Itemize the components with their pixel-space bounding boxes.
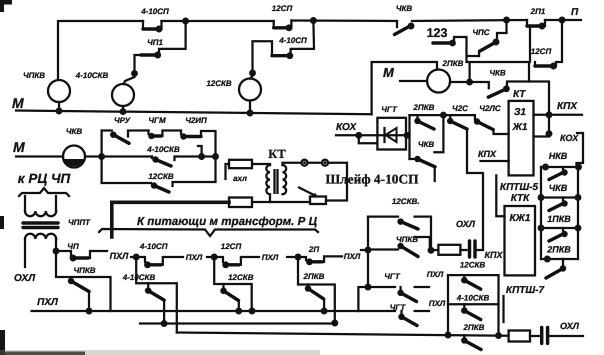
block Z1 Zh1 (KPTSh-5 KTK) (509, 101, 534, 175)
svg-text:ПХЛ: ПХЛ (37, 297, 59, 308)
wire top bus P from 4-10SP contact to P terminal (58, 20, 581, 80)
rail of ChGT block (367, 217, 369, 287)
contact ChRU (open) (110, 116, 148, 143)
block KZh1 (505, 206, 536, 275)
svg-text:к РЦ ЧП: к РЦ ЧП (18, 171, 71, 186)
svg-text:ЧКВ: ЧКВ (489, 69, 506, 78)
wire staircase 123-stub to ChPS and to 12SP bypass (454, 26, 530, 62)
contact ChKV (top right, open) (395, 4, 415, 35)
contact ChPKV (open) cell 1 (56, 251, 111, 314)
svg-text:ЧКВ: ЧКВ (418, 140, 435, 149)
contact 4-10SP (closed) to PHL (136, 253, 203, 268)
contact Ch2S (open) to KZh1 box KPH input (447, 104, 483, 250)
variable resistor of shleif with arrow (252, 188, 326, 205)
contact ChKV (third, vertical open) (410, 115, 444, 181)
svg-text:ЧГТ: ЧГТ (381, 105, 398, 114)
contact ChP (closed) to PHL (56, 242, 107, 261)
relay coil 12SKV (206, 79, 261, 114)
svg-text:ЧКВ: ЧКВ (66, 127, 83, 136)
svg-text:4-10СП: 4-10СП (139, 242, 168, 251)
svg-text:ЧПКВ: ЧПКВ (73, 266, 95, 275)
svg-text:П: П (571, 7, 579, 18)
wire stub below KPTSh-7 (502, 296, 504, 322)
node junction top bus at x=313 (310, 17, 317, 24)
svg-text:КТК: КТК (511, 193, 530, 204)
scan artifacts left edge (0, 0, 12, 5)
svg-text:ЧПС: ЧПС (472, 28, 489, 37)
contact 2P (closed) to PHL (298, 252, 361, 265)
wire diode output to contact rail (404, 115, 411, 159)
contact ChP1 with lead to coil 4-10SKV (124, 21, 186, 84)
svg-text:ПХЛ: ПХЛ (427, 270, 444, 279)
ladder rung 2 (538, 194, 582, 201)
svg-text:НКВ: НКВ (549, 151, 568, 161)
svg-text:2ПКВ: 2ПКВ (303, 272, 325, 281)
svg-text:Ч2ЛС: Ч2ЛС (479, 104, 501, 113)
svg-text:М: М (383, 65, 395, 80)
contact 2PKV (vertical, open) (413, 103, 435, 129)
transformer KT (266, 147, 286, 194)
svg-text:КТ: КТ (268, 147, 286, 161)
svg-text:4-10СКВ: 4-10СКВ (75, 71, 109, 80)
svg-text:12СКВ: 12СКВ (228, 273, 254, 282)
svg-text:КЖ1: КЖ1 (510, 213, 531, 224)
contact 12SP (second, closed) bypass to node x=562 (531, 20, 562, 69)
contact Ch2LS (open) into Z1/Zh1 box (474, 104, 509, 134)
contact 12SKV (open) upper branch (368, 197, 431, 250)
svg-text:1ПКВ: 1ПКВ (547, 214, 571, 224)
svg-text:ПХЛ: ПХЛ (429, 299, 446, 308)
label KOX and wire to diode block (336, 122, 377, 143)
node ChP junction under transformer (53, 248, 60, 255)
resistor to KPH (431, 245, 467, 255)
contact 2P1 (closed) (527, 7, 546, 29)
label K pitayushchim transform. RTs with brace (99, 215, 318, 236)
contact ChPS (open) hanging from node x=506 (472, 20, 506, 56)
svg-text:ЧКВ: ЧКВ (396, 4, 413, 13)
svg-text:12СП: 12СП (531, 47, 552, 56)
svg-text:Ж1: Ж1 (512, 122, 528, 133)
ladder rung 1 with contact NKV (closed) (541, 151, 582, 170)
resistor axl with free OXL stub (226, 160, 271, 183)
svg-text:Ч2ИП: Ч2ИП (185, 116, 207, 125)
node junction coil output (450, 62, 489, 88)
bus 3 (bottom, to OXL output) (177, 333, 509, 336)
contact ChGT row A to PHL (368, 270, 444, 302)
svg-text:КПХ: КПХ (478, 149, 497, 159)
svg-text:12СП: 12СП (221, 242, 242, 251)
bus M (second row) (13, 139, 152, 157)
resistor on thick feeder (229, 198, 252, 208)
svg-text:12СП: 12СП (272, 4, 293, 13)
contact 12SP (closed) to PHL (214, 253, 279, 268)
label M (third) and wire to coil 2PKV (383, 65, 427, 81)
contact Ch2IP (closed) (180, 116, 215, 157)
svg-text:2П1: 2П1 (530, 7, 546, 16)
svg-text:КПТШ-5: КПТШ-5 (500, 182, 539, 193)
svg-text:12СКВ: 12СКВ (148, 172, 174, 181)
svg-text:2ПКВ: 2ПКВ (463, 323, 485, 332)
svg-text:2ПКВ: 2ПКВ (442, 59, 464, 68)
svg-text:ЧП: ЧП (67, 242, 79, 251)
svg-text:Ч2С: Ч2С (452, 104, 468, 113)
svg-text:ОХЛ: ОХЛ (14, 273, 36, 284)
svg-text:ЧП1: ЧП1 (147, 38, 163, 47)
svg-text:2ПКВ: 2ПКВ (546, 245, 571, 255)
wire KPH output right (534, 101, 583, 137)
label 123 (track section) with terminal stub (427, 26, 456, 46)
svg-text:2ПКВ: 2ПКВ (413, 103, 435, 112)
svg-text:4-10СКВ: 4-10СКВ (146, 145, 180, 154)
ladder contact 2PKV (open) (546, 228, 571, 255)
bottom right cell box rails (445, 275, 502, 339)
node junction top bus at x=506 (503, 17, 510, 24)
svg-text:М: М (13, 139, 25, 155)
svg-text:ПХЛ: ПХЛ (110, 251, 129, 261)
cell 2: node 4-10SP (131, 242, 168, 260)
svg-text:ПХЛ: ПХЛ (262, 253, 279, 262)
contact OXL branch (open) below ladder (546, 259, 566, 278)
capacitor to KPH (470, 241, 504, 260)
relay coil ChKV (half filled) (63, 127, 85, 168)
wire bypass bottom row 12SKV (102, 157, 151, 184)
relay coil ChPKV (23, 71, 70, 110)
svg-text:4-10СП: 4-10СП (140, 7, 169, 16)
node junctions on bus M2 (198, 153, 205, 160)
cell 4: node 2P (287, 245, 319, 260)
svg-text:12СКВ: 12СКВ (460, 261, 486, 270)
label KPH (left input of Z1 box) (478, 149, 509, 161)
contact 4-10SP (top left, closed) (140, 7, 169, 32)
svg-text:КОХ: КОХ (336, 122, 358, 133)
relay coil 4-10SKV (75, 71, 134, 111)
svg-text:ЧГТ: ЧГТ (384, 272, 401, 281)
contact 2PKV (open) cell 4 (298, 257, 338, 326)
capacitor bottom right to OXL (542, 321, 583, 343)
diode block ChGT (377, 105, 406, 150)
contact 12SKV (open) (148, 157, 215, 193)
label k RTs ChP with brace (18, 171, 71, 196)
node junction on top bus (182, 18, 189, 25)
wire bypass top row (102, 131, 112, 157)
ladder contact 1PKV (open) (547, 198, 571, 225)
svg-text:123: 123 (427, 26, 448, 40)
svg-text:КПХ: КПХ (557, 101, 578, 112)
contact 12SKV (open) in box (461, 275, 481, 289)
bus PHL (bus1) (32, 310, 359, 312)
svg-text:ЧРУ: ЧРУ (114, 116, 131, 125)
svg-text:ЧКВ: ЧКВ (549, 183, 568, 193)
svg-text:ОХЛ: ОХЛ (560, 321, 580, 331)
svg-text:КТ: КТ (513, 89, 526, 100)
cell 3: node 12SP (207, 242, 241, 260)
ladder rung 3 (538, 225, 582, 232)
stub drop to bus M2 (198, 146, 202, 157)
contact 4-10SKV (open) cell 2 (122, 257, 177, 333)
label KOX (right) with riser to ladder (560, 133, 583, 167)
relay coil 2PKV (427, 59, 464, 93)
svg-text:З1: З1 (514, 107, 526, 118)
svg-text:4-10СКВ: 4-10СКВ (456, 294, 490, 303)
node junction top bus at x=562 / terminal P (559, 17, 566, 24)
svg-text:ЧГМ: ЧГМ (148, 116, 166, 125)
shleif loop terminals (283, 160, 348, 201)
ladder contact ChKV (open) (549, 167, 568, 193)
node A junction (98, 153, 105, 160)
ladder rung 4 (bottom) (541, 256, 578, 263)
svg-text:КПХ: КПХ (485, 250, 504, 260)
wire Z1 box bottom to KZh1 box left (496, 175, 504, 216)
svg-text:ахл: ахл (233, 174, 247, 183)
contact 2PKV (open) below bus3 (461, 323, 485, 350)
svg-text:2П: 2П (308, 245, 319, 254)
resistor bottom right (509, 331, 539, 342)
svg-text:ПХЛ: ПХЛ (186, 253, 203, 262)
riser bus1 to ChGT rail (358, 284, 371, 311)
wire M-bus riser to 2PKV coil top (372, 62, 437, 114)
contact 12SKV (open) cell 3 (214, 257, 255, 314)
bus 2 (140, 322, 335, 324)
contact 4-10SP (second, closed) bridging to coil 12SKV (249, 21, 314, 79)
svg-text:Шлейф 4-10СП: Шлейф 4-10СП (325, 172, 419, 187)
contact 4-10SKV (open, on bus M2) (146, 145, 215, 166)
svg-text:ЧПКВ: ЧПКВ (23, 71, 45, 80)
svg-text:КПТШ-7: КПТШ-7 (506, 285, 545, 296)
svg-text:4-10СКВ: 4-10СКВ (122, 273, 156, 282)
label PHL stub into rail (361, 247, 371, 254)
contact 12SP (top, closed) (272, 4, 293, 31)
svg-text:ПХЛ: ПХЛ (344, 252, 361, 261)
contact ChKV (second, open) with KT contact chain (488, 62, 529, 97)
rail top row to Ch2LS (410, 114, 475, 116)
transformer ChPPT (23, 196, 91, 267)
right ladder: rails (541, 167, 578, 259)
svg-text:ОХЛ: ОХЛ (456, 219, 476, 229)
thick feeder wire to track transformers (112, 202, 229, 237)
contact 4-10SKV (open) in box (456, 294, 490, 320)
svg-text:ЧППТ: ЧППТ (68, 218, 91, 227)
contact ChPKV (open) middle branch (368, 235, 434, 257)
contact ChGT row B to PHL (358, 299, 445, 326)
svg-text:12СКВ: 12СКВ (206, 79, 232, 88)
svg-text:4-10СП: 4-10СП (278, 36, 307, 45)
svg-text:К питающи м трансформ. Р Ц: К питающи м трансформ. Р Ц (137, 215, 318, 228)
contact KT label and output to KPH node (513, 82, 549, 137)
svg-text:М: М (12, 95, 24, 111)
contact ChGM (closed) (148, 116, 181, 139)
svg-text:КОХ: КОХ (560, 133, 579, 143)
bus M (first row) (12, 95, 372, 116)
svg-text:12СКВ.: 12СКВ. (392, 197, 420, 206)
